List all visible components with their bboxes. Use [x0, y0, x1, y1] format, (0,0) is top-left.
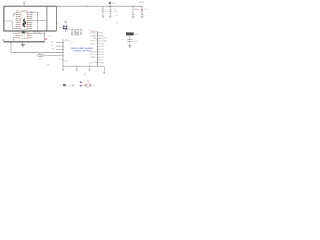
U2 left pins	[13, 33, 18, 38]
junction dots on bottom wire	[62, 66, 90, 67]
svg-text:R2: R2	[60, 59, 62, 61]
rail left stub	[3, 39, 5, 42]
wire U1 pin to box edge	[32, 19, 47, 21]
U1 right pins	[29, 12, 33, 28]
svg-text:VDD33: VDD33	[90, 33, 96, 35]
module box	[4, 6, 57, 31]
svg-text:U0TXD: U0TXD	[90, 43, 97, 45]
bottom wire	[63, 65, 104, 67]
svg-text:R3: R3	[59, 27, 61, 29]
U2 pin numbers	[16, 32, 31, 39]
U1 centre logo blob	[23, 19, 25, 27]
svg-text:IO4: IO4	[30, 16, 33, 18]
svg-text:IO9: IO9	[30, 20, 33, 22]
svg-text:11: 11	[16, 17, 18, 19]
IC U2 body	[19, 32, 27, 39]
svg-text:C10u: C10u	[134, 9, 139, 11]
svg-text:C5: C5	[68, 85, 70, 87]
ground C1	[102, 16, 105, 18]
connector right stubs	[97, 33, 99, 63]
svg-text:VOUT 3V3: VOUT 3V3	[33, 32, 42, 34]
svg-text:FB1: FB1	[134, 34, 137, 36]
svg-text:IO2: IO2	[100, 60, 103, 62]
ground under U2	[21, 42, 26, 47]
svg-text:net notes: net notes	[64, 40, 71, 43]
svg-text:IO15: IO15	[100, 57, 104, 59]
svg-text:I22: I22	[30, 28, 32, 30]
wire from left border to U1	[4, 21, 15, 28]
connector right labels	[100, 33, 107, 65]
svg-text:IO5: IO5	[30, 18, 33, 20]
svg-text:C4 1u: C4 1u	[69, 29, 74, 31]
capacitor C1	[101, 6, 104, 16]
svg-text:1x4: 1x4	[91, 85, 94, 87]
right drop wire	[44, 31, 46, 42]
svg-text:I19: I19	[30, 24, 32, 26]
svg-text:IO14: IO14	[100, 54, 104, 56]
svg-text:IO13: IO13	[100, 52, 104, 54]
svg-text:GND: GND	[24, 38, 27, 40]
svg-text:C2: C2	[105, 10, 107, 12]
svg-text:100n: 100n	[113, 11, 117, 13]
ferrite bead module	[126, 32, 134, 35]
svg-text:J2: J2	[83, 85, 85, 87]
svg-text:C1: C1	[98, 10, 100, 12]
svg-text:EN2: EN2	[65, 61, 69, 63]
collector vertical	[62, 39, 64, 66]
svg-text:IO12: IO12	[100, 49, 104, 51]
svg-text:17: 17	[16, 23, 18, 25]
red speck component	[45, 39, 46, 40]
svg-text:I18: I18	[30, 22, 32, 24]
svg-text:14: 14	[16, 11, 18, 13]
svg-text:RXD0: RXD0	[100, 46, 105, 48]
+3V3 wire	[56, 5, 142, 7]
svg-text:12: 12	[16, 15, 18, 17]
capacitor C2	[109, 6, 112, 16]
svg-text:TXD0: TXD0	[100, 43, 105, 45]
svg-text:TP2: TP2	[60, 85, 63, 87]
svg-text:MTDI: MTDI	[91, 52, 96, 54]
box right edge	[55, 6, 57, 31]
IC U1 body	[21, 12, 28, 30]
svg-text:GND: GND	[89, 62, 94, 64]
svg-text:16: 16	[16, 21, 18, 23]
svg-text:IN: IN	[20, 33, 21, 35]
rail wire	[4, 41, 45, 43]
VBUS corner wire	[141, 6, 143, 15]
svg-text:C12: C12	[134, 41, 137, 43]
svg-text:CONNECT 3V3 FTDI: CONNECT 3V3 FTDI	[73, 50, 92, 52]
net speck	[65, 21, 67, 23]
faint mark	[47, 64, 49, 65]
svg-text:EN: EN	[20, 36, 22, 38]
C3 branch	[132, 6, 133, 7]
svg-text:D1: D1	[57, 23, 59, 25]
U1 left pin red marks	[19, 12, 20, 29]
svg-text:GND: GND	[100, 35, 105, 37]
faint speck	[84, 74, 86, 75]
svg-text:3V3: 3V3	[48, 36, 51, 38]
svg-text:IO0: IO0	[51, 45, 54, 47]
U1 right pin red marks	[27, 12, 28, 29]
svg-text:IO2: IO2	[30, 12, 33, 14]
vertical tick texts	[71, 32, 81, 36]
svg-text:GNDA: GNDA	[90, 34, 96, 37]
ground C2	[109, 16, 112, 18]
junction at rail	[10, 41, 11, 42]
U2 left drop	[12, 38, 14, 42]
stub wires	[38, 43, 63, 56]
resistor R1	[38, 55, 42, 57]
svg-text:I21: I21	[30, 26, 32, 28]
junction	[37, 20, 38, 21]
faint label above J2	[87, 80, 89, 81]
U1 left bracket wire	[13, 14, 16, 17]
connector J1	[96, 31, 98, 66]
svg-text:MTCK: MTCK	[90, 54, 96, 56]
U1 right bracket wire	[32, 12, 37, 30]
svg-text:VBUS: VBUS	[139, 2, 145, 4]
power symbol above junction	[109, 3, 111, 6]
svg-text:3V3: 3V3	[100, 33, 103, 35]
svg-text:10: 10	[16, 19, 18, 21]
svg-text:GND: GND	[100, 62, 105, 64]
svg-text:13: 13	[16, 13, 18, 15]
U1 left pins	[16, 12, 19, 28]
lower net wire	[11, 42, 63, 53]
gnd arrow stems	[62, 66, 105, 73]
svg-text:21: 21	[16, 27, 18, 29]
stub net labels	[51, 41, 55, 50]
+5V power port	[23, 2, 27, 7]
svg-text:IO0_SW: IO0_SW	[100, 41, 107, 43]
U1 inner pin numbers	[21, 12, 27, 30]
junction dots on collector	[62, 42, 63, 61]
svg-text:MTMS: MTMS	[90, 57, 96, 59]
box partition	[46, 6, 48, 31]
connector left labels	[90, 33, 97, 59]
svg-text:OUT: OUT	[24, 33, 27, 35]
left stub row 12	[94, 62, 98, 64]
svg-text:19: 19	[16, 25, 18, 27]
U1 pin number text	[16, 11, 34, 30]
colored pair marks	[80, 82, 81, 83]
svg-text:C11u: C11u	[144, 9, 148, 11]
svg-text:R1 10K: R1 10K	[38, 53, 45, 55]
top wire junction dots	[87, 6, 88, 7]
U2 right pins	[29, 33, 45, 37]
